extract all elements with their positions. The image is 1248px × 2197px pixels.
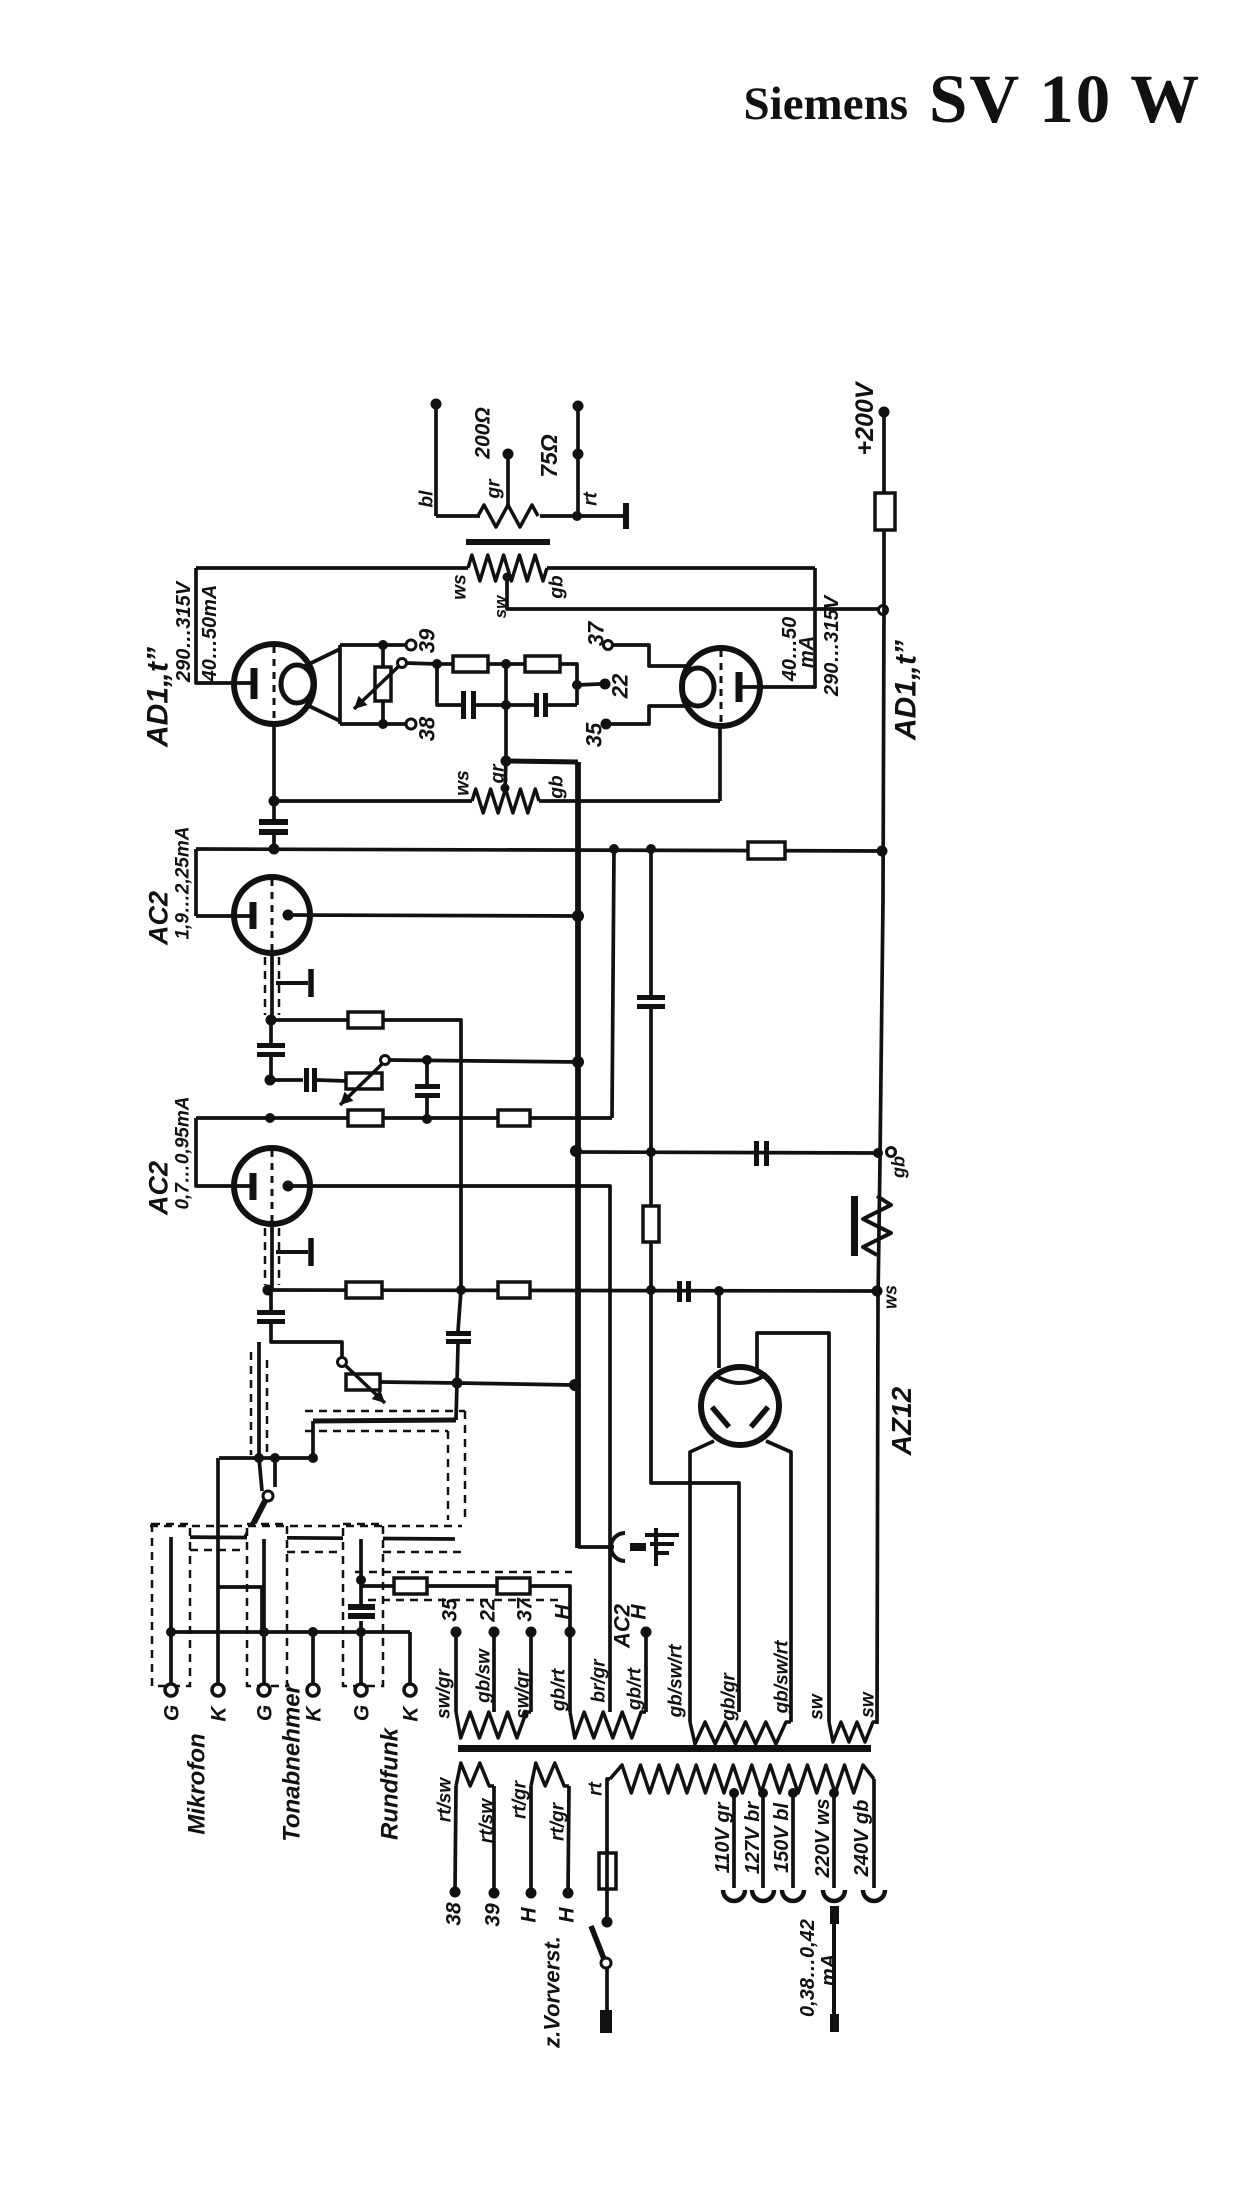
resistor box <box>498 1110 530 1126</box>
tube AC2 2 anode dot <box>283 1181 294 1192</box>
node <box>602 1917 613 1928</box>
wire <box>540 514 624 518</box>
capacitor <box>637 995 665 1000</box>
tube AC2 2 <box>234 1148 310 1224</box>
svg-text:rt/gr: rt/gr <box>548 1801 569 1841</box>
node sw tap <box>503 573 512 582</box>
tube AD1 left filament circle <box>281 665 313 703</box>
tube AZ12 anode right <box>751 1407 768 1427</box>
shield dash riser <box>250 1352 253 1455</box>
wire <box>457 1344 458 1383</box>
pin 35 <box>601 719 612 730</box>
wire <box>530 1586 570 1632</box>
svg-text:22: 22 <box>608 673 633 699</box>
svg-text:sw/gr: sw/gr <box>513 1668 534 1719</box>
tube AD1 left grid bar <box>251 668 258 699</box>
node <box>572 680 582 690</box>
svg-text:gr: gr <box>484 478 505 500</box>
node <box>452 1378 463 1389</box>
svg-text:H: H <box>551 1604 574 1620</box>
capacitor cathode AD1 <box>259 819 288 825</box>
switch contact <box>601 1958 611 1968</box>
wire ground line <box>171 1630 410 1634</box>
node <box>263 1285 274 1296</box>
svg-text:290…315V: 290…315V <box>821 594 843 697</box>
svg-text:rt/sw: rt/sw <box>435 1777 456 1823</box>
svg-text:40…50mA: 40…50mA <box>199 585 221 683</box>
wire <box>196 1116 612 1120</box>
wire pin22 stub <box>577 684 600 685</box>
svg-text:sw: sw <box>807 1693 828 1720</box>
node <box>378 640 388 650</box>
wire <box>271 1018 348 1022</box>
node <box>259 1627 269 1637</box>
wire <box>548 703 577 707</box>
svg-text:H: H <box>517 1907 540 1923</box>
selector contact <box>263 1491 273 1501</box>
node ws terminal <box>872 1286 883 1297</box>
wire <box>338 645 342 724</box>
node <box>254 1453 264 1463</box>
primary tap 734 <box>729 1788 739 1798</box>
pin 38 bottom <box>450 1887 461 1898</box>
wire <box>340 722 406 726</box>
wire <box>576 406 580 516</box>
wire stub <box>305 704 340 721</box>
node <box>356 1534 366 1544</box>
tube AD1 right heater dash <box>720 650 723 724</box>
wire <box>605 1889 609 1917</box>
tube AC2 2 grid bar <box>250 1173 257 1200</box>
svg-text:AD1„t”: AD1„t” <box>890 640 923 741</box>
wire <box>381 701 385 724</box>
transformer secondary winding ws-gb <box>468 555 547 581</box>
socket 150V bl <box>782 1890 804 1901</box>
svg-text:AZ12: AZ12 <box>886 1386 917 1456</box>
wire grid bus <box>575 762 581 1548</box>
node <box>308 1627 318 1637</box>
svg-text:br/gr: br/gr <box>589 1658 610 1703</box>
node plate-bus <box>572 910 584 922</box>
fuse <box>599 1853 616 1889</box>
svg-text:38: 38 <box>442 1902 465 1926</box>
capacitor <box>415 1084 440 1089</box>
terminal K ton <box>307 1684 319 1696</box>
wire shield riser <box>257 1342 261 1458</box>
resistor rail box <box>875 493 895 530</box>
wire anode loop <box>757 1333 829 1722</box>
winding3 gb/sw/rt <box>690 1722 791 1744</box>
resistor box R2 <box>525 656 560 672</box>
wire <box>425 1060 429 1084</box>
wire <box>194 849 198 916</box>
tube AZ12 <box>701 1367 779 1445</box>
winding1 leads <box>454 1632 458 1712</box>
tube AC2 2 heater dash <box>271 1150 274 1222</box>
svg-text:G: G <box>350 1705 373 1721</box>
pin H bottom2 <box>563 1888 574 1899</box>
wire <box>437 664 461 705</box>
svg-text:39: 39 <box>481 1903 504 1927</box>
wire <box>425 1098 429 1119</box>
svg-text:gb: gb <box>888 1156 908 1179</box>
wire <box>272 835 276 849</box>
node rt top <box>573 401 584 412</box>
node <box>432 659 442 669</box>
pin 38 <box>406 719 416 729</box>
winding5 leads <box>455 1786 456 1892</box>
capacitor series small <box>304 1068 309 1092</box>
wire <box>578 1545 614 1549</box>
svg-text:sw/gr: sw/gr <box>434 1668 455 1719</box>
node <box>501 756 512 767</box>
node pot1-bus <box>572 1056 584 1068</box>
terminal K run <box>404 1684 416 1696</box>
resistor box pin2 <box>497 1578 530 1594</box>
shield dash box ton <box>247 1524 287 1686</box>
wire <box>457 1383 573 1385</box>
node <box>646 1285 656 1295</box>
node <box>422 1114 432 1124</box>
tube AD1 left heater dash <box>273 646 276 722</box>
pin 22 <box>600 679 611 690</box>
svg-text:SV 10 W: SV 10 W <box>929 61 1201 137</box>
wire <box>649 1152 653 1206</box>
wire sw tap <box>507 577 878 609</box>
svg-text:ws: ws <box>880 1285 900 1309</box>
wire <box>612 645 688 666</box>
resistor box <box>346 1282 382 1298</box>
socket 110V gr <box>723 1890 745 1901</box>
wire <box>506 454 510 507</box>
wire <box>611 706 688 724</box>
wire <box>437 662 453 666</box>
node <box>265 1113 275 1123</box>
pin 37 <box>604 641 613 650</box>
shield dash box run <box>343 1524 383 1686</box>
wire filament left <box>690 1441 714 1722</box>
pin 22 <box>489 1627 500 1638</box>
resistor box pin1 <box>394 1578 427 1594</box>
svg-text:ws: ws <box>453 770 474 795</box>
pot2 wiper contact <box>338 1358 347 1367</box>
svg-text:290…315V: 290…315V <box>173 580 195 683</box>
node gr tap <box>503 449 514 460</box>
wire <box>269 1057 273 1080</box>
node <box>646 844 656 854</box>
svg-text:rt/gr: rt/gr <box>510 1779 531 1819</box>
wire <box>488 662 525 666</box>
winding6 leads <box>529 1786 533 1893</box>
tube AC2 1 heater dash <box>271 879 274 951</box>
svg-text:0,38…0,42: 0,38…0,42 <box>797 1919 819 2017</box>
svg-text:z.Vorverst.: z.Vorverst. <box>540 1936 565 2049</box>
svg-text:gb/rt: gb/rt <box>549 1668 570 1712</box>
tube AC2 1 <box>234 877 310 953</box>
svg-text:H: H <box>555 1907 578 1923</box>
connector arc <box>611 1533 625 1561</box>
primary tap 763 <box>758 1788 768 1798</box>
capacitor cathode 2b <box>257 1310 285 1315</box>
terminal G ton <box>258 1684 270 1696</box>
wire thick 1420 <box>313 1420 456 1421</box>
svg-text:gb: gb <box>547 775 568 800</box>
winding5 rt/sw <box>456 1763 494 1786</box>
wire gb line <box>576 1152 878 1153</box>
tube AD1 right <box>682 648 760 726</box>
pin H <box>641 1627 652 1638</box>
node <box>456 1285 466 1295</box>
wire <box>882 412 886 493</box>
switch end bar <box>600 2010 612 2033</box>
node <box>270 1532 280 1542</box>
socket 240V gb <box>863 1890 885 1901</box>
winding2 gb/rt <box>570 1712 646 1738</box>
node <box>308 1453 318 1463</box>
measure lead <box>832 1906 836 2032</box>
wire <box>406 663 437 664</box>
pin 39 <box>406 640 416 650</box>
tube AC2 1 anode dot <box>283 910 294 921</box>
svg-text:37: 37 <box>584 620 609 646</box>
capacitor C1 <box>461 691 466 719</box>
node <box>356 1575 366 1585</box>
transformer main core bar <box>458 1745 871 1752</box>
wire <box>436 514 480 518</box>
svg-text:Tonabnehmer: Tonabnehmer <box>278 1682 305 1841</box>
svg-text:sw: sw <box>858 1691 879 1718</box>
pin 35 <box>451 1627 462 1638</box>
svg-text:G: G <box>253 1705 276 1721</box>
wire <box>359 1580 363 1604</box>
svg-text:AC2: AC2 <box>143 891 173 946</box>
svg-text:mA: mA <box>796 636 818 668</box>
svg-text:rt/sw: rt/sw <box>477 1798 498 1844</box>
switch lever <box>591 1926 604 1959</box>
wire <box>649 1242 653 1290</box>
wire rail <box>877 530 884 1724</box>
node <box>254 1532 264 1542</box>
svg-text:ws: ws <box>450 574 471 599</box>
wire <box>272 801 276 819</box>
ground ticks <box>645 1533 679 1537</box>
resistor 200ohm <box>478 505 538 527</box>
svg-text:gb/sw/rt: gb/sw/rt <box>772 1640 793 1715</box>
node <box>269 844 280 855</box>
wire plate 2 <box>288 1186 610 1712</box>
terminal gb <box>887 1148 896 1157</box>
wire <box>458 1290 461 1331</box>
node <box>269 796 280 807</box>
node <box>501 659 511 669</box>
node junction <box>572 511 582 521</box>
svg-text:+200V: +200V <box>851 380 879 455</box>
wire <box>359 1539 363 1580</box>
transformer primary winding <box>610 1765 874 1793</box>
wire row1 <box>219 1456 313 1460</box>
shield dash resline <box>355 1571 572 1574</box>
pot wiper contact <box>398 659 407 668</box>
pot1 arrow <box>340 1064 382 1105</box>
wire <box>169 1537 173 1684</box>
terminal G run <box>355 1684 367 1696</box>
terminal G mik <box>165 1684 177 1696</box>
svg-text:K: K <box>207 1705 230 1722</box>
svg-text:Rundfunk: Rundfunk <box>376 1726 403 1840</box>
wire down to bus <box>504 705 508 761</box>
wire <box>456 1383 457 1420</box>
pin 37 <box>526 1627 537 1638</box>
shield dash 1420 <box>305 1410 465 1413</box>
wire <box>270 1078 303 1082</box>
svg-text:AC2: AC2 <box>610 1603 635 1649</box>
node <box>609 844 619 854</box>
svg-text:35: 35 <box>438 1598 461 1622</box>
svg-text:gb/sw/rt: gb/sw/rt <box>666 1644 687 1719</box>
svg-text:bl: bl <box>417 490 438 508</box>
pin H bottom <box>526 1888 537 1899</box>
svg-text:mA: mA <box>818 1954 840 1986</box>
wire <box>718 726 722 801</box>
node +200V <box>879 407 890 418</box>
node <box>873 1148 883 1158</box>
wire <box>340 643 406 647</box>
svg-text:rt: rt <box>581 491 602 505</box>
potentiometer 2 box <box>346 1374 380 1390</box>
wire <box>216 1458 220 1684</box>
wire <box>196 566 468 570</box>
coil zigzag <box>863 1196 891 1255</box>
wire bus top <box>506 761 578 762</box>
wire <box>259 1458 262 1491</box>
terminal bar <box>623 503 629 529</box>
socket 127V br <box>752 1890 774 1901</box>
potentiometer bias box <box>375 667 391 701</box>
wire <box>427 1584 497 1588</box>
pin H <box>565 1627 576 1638</box>
wire <box>381 645 385 667</box>
connector bar <box>630 1543 646 1551</box>
wire <box>389 1060 578 1062</box>
wire <box>269 1290 273 1310</box>
winding2 leads <box>568 1632 572 1712</box>
winding6 rt/gr <box>531 1763 569 1786</box>
tube AZ12 anode left <box>712 1407 729 1427</box>
wire <box>317 1080 346 1081</box>
wire <box>383 1020 461 1290</box>
node <box>266 1015 277 1026</box>
svg-text:K: K <box>302 1705 325 1722</box>
wire <box>872 1779 876 1888</box>
tube AD1 left <box>234 644 314 724</box>
wire <box>651 1290 739 1712</box>
svg-text:110V gr: 110V gr <box>712 1801 734 1873</box>
svg-text:gb/rt: gb/rt <box>625 1667 646 1711</box>
node pot2-bus <box>569 1379 581 1391</box>
shield dash row2 <box>150 1525 462 1528</box>
tube AD1 right grid bar <box>736 672 743 702</box>
wire <box>269 1020 273 1043</box>
resistor box 849 <box>748 842 785 859</box>
pot2 arrow <box>346 1366 385 1403</box>
svg-text:75Ω: 75Ω <box>536 434 562 478</box>
wire <box>476 703 534 707</box>
wire <box>612 849 614 1118</box>
shield dash <box>264 957 267 1015</box>
wire <box>505 761 506 788</box>
wire grid right <box>739 568 815 687</box>
wire bracket <box>196 1118 252 1186</box>
svg-text:38: 38 <box>415 716 440 741</box>
wire <box>311 1632 315 1684</box>
shield dash vert448 <box>447 1431 450 1520</box>
wire cathode left <box>272 724 276 801</box>
socket 220V ws <box>823 1890 845 1901</box>
wire <box>560 664 577 705</box>
wire <box>359 1621 363 1684</box>
node <box>265 1075 276 1086</box>
wire cathode 2 <box>270 1222 274 1290</box>
node bl terminal <box>431 399 442 410</box>
node <box>570 1145 582 1157</box>
selector lever <box>246 1501 265 1538</box>
svg-text:150V bl: 150V bl <box>771 1803 793 1873</box>
wire jog <box>218 1587 262 1632</box>
svg-text:G: G <box>160 1705 183 1721</box>
node <box>501 700 511 710</box>
node gr tap2 <box>501 784 510 793</box>
wire stub <box>273 1458 277 1487</box>
svg-text:gb/sw: gb/sw <box>474 1648 495 1704</box>
svg-text:AD1„t”: AD1„t” <box>142 647 175 748</box>
pot1 wiper contact <box>381 1056 390 1065</box>
wire plate left <box>196 568 253 683</box>
node junction open <box>879 606 888 615</box>
wire <box>539 799 720 803</box>
svg-text:220V ws: 220V ws <box>812 1799 834 1879</box>
capacitor run input <box>348 1604 375 1610</box>
svg-text:gb/gr: gb/gr <box>719 1672 740 1722</box>
tube AZ12 filament arc <box>713 1374 767 1383</box>
pot arrow <box>354 666 399 709</box>
primary tap 834 <box>829 1788 839 1798</box>
node rt mid <box>573 449 584 460</box>
wire <box>274 799 472 803</box>
coupling cap x458 <box>446 1331 471 1336</box>
node <box>166 1627 176 1637</box>
resistor box grid leak 1 <box>348 1012 383 1028</box>
capacitor C2 <box>534 693 539 717</box>
terminal K mik <box>212 1684 224 1696</box>
capacitor <box>677 1281 682 1302</box>
winding4 sw-sw <box>829 1722 877 1742</box>
wire <box>271 1324 342 1357</box>
svg-text:K: K <box>399 1705 422 1722</box>
svg-text:1,9…2,25mA: 1,9…2,25mA <box>173 826 194 939</box>
wire anode top-left <box>717 1291 721 1368</box>
svg-text:gb: gb <box>547 575 568 600</box>
wire cathode <box>270 951 274 1020</box>
wire <box>605 1968 609 2010</box>
wire stub <box>305 649 340 666</box>
wire <box>649 1009 653 1152</box>
node <box>378 719 388 729</box>
node <box>714 1286 724 1296</box>
svg-text:200Ω: 200Ω <box>471 407 494 459</box>
wire row2 <box>171 1537 455 1539</box>
wire rt lead <box>607 1779 610 1853</box>
winding1 sw/gr <box>456 1712 531 1738</box>
